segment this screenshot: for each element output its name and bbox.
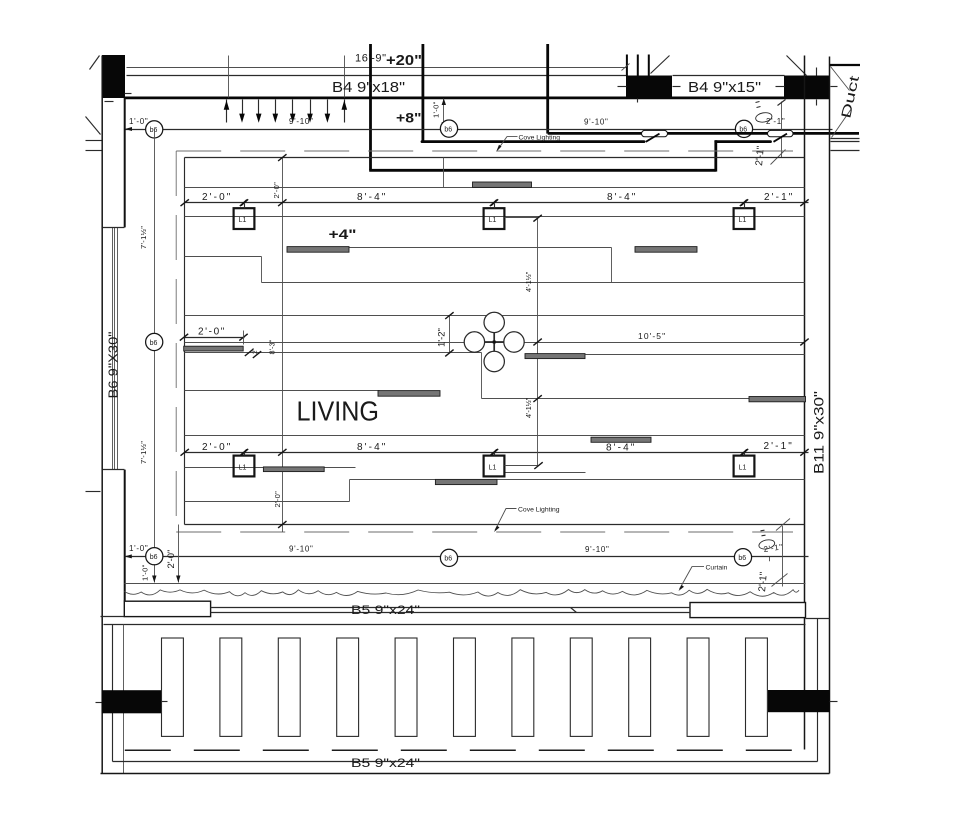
cove upper heavy segment C <box>793 132 860 135</box>
bar 9 <box>435 479 497 484</box>
grid stem above arrow 1 <box>228 56 230 98</box>
svg-text:2'-1": 2'-1" <box>764 192 794 203</box>
svg-text:LIVING: LIVING <box>297 396 380 427</box>
svg-text:B4 9"x18": B4 9"x18" <box>332 80 405 96</box>
flower circle left <box>464 332 484 352</box>
svg-text:+20": +20" <box>386 52 422 69</box>
dim stem x783 bottom <box>782 526 784 587</box>
L1 box top-mid <box>484 200 505 229</box>
tick above right block <box>816 68 818 76</box>
pergola dash-dot line <box>125 749 805 751</box>
svg-text:B4 9"x15": B4 9"x15" <box>688 80 761 96</box>
svg-text:10'-5": 10'-5" <box>638 331 666 341</box>
plank line y390 <box>185 390 380 392</box>
left wall outer line <box>101 56 103 774</box>
duct lower diagonal <box>832 109 852 138</box>
svg-text:9'-10": 9'-10" <box>584 118 609 127</box>
plank line y435 <box>185 435 805 437</box>
L1 box bot-right <box>734 450 755 477</box>
pergola inner vertical left A <box>112 625 114 762</box>
arrow down 7 <box>325 100 331 123</box>
flower step joint x481 <box>481 353 483 399</box>
tick right of column <box>125 93 132 95</box>
curtain wavy line <box>125 589 800 596</box>
arrow down 3 <box>256 100 262 123</box>
svg-text:8'-4": 8'-4" <box>357 442 387 453</box>
svg-text:1'-2": 1'-2" <box>437 328 448 347</box>
arrow down 5 <box>290 100 296 123</box>
svg-text:16'-9": 16'-9" <box>355 53 387 65</box>
L1 box bot-left <box>234 450 255 477</box>
cove lighting label bottom <box>494 506 560 532</box>
bar 5 <box>525 354 585 359</box>
slash on y342 at wall <box>800 339 808 346</box>
plank line y216 <box>185 216 805 218</box>
dim 2'-0" mid-left <box>180 327 248 345</box>
slash bottom-right <box>772 574 788 587</box>
heavy riser at x548 <box>546 44 549 134</box>
plank line y398 <box>482 398 805 400</box>
dim 1'-2" vertical <box>437 312 454 356</box>
plank line y352 <box>185 352 482 354</box>
svg-text:8'-4": 8'-4" <box>357 192 387 203</box>
cove lighting label top <box>496 134 560 152</box>
bubble bottom 2 <box>440 549 457 566</box>
svg-text:7'-1½": 7'-1½" <box>139 226 148 249</box>
L1 box bot-mid <box>484 450 505 477</box>
beam stub black left <box>102 690 161 713</box>
svg-text:4'-1½": 4'-1½" <box>524 397 533 418</box>
column diagonal slash <box>90 56 100 70</box>
plank line y354 right <box>586 354 805 356</box>
B5 double lines <box>211 607 691 609</box>
left wall inner upper <box>124 98 126 228</box>
plank line y342 <box>185 342 805 344</box>
beam B4 black block right <box>784 76 830 99</box>
svg-text:+4": +4" <box>329 226 357 242</box>
plank joint x443 <box>443 158 445 188</box>
arrow up 1 <box>224 100 230 123</box>
dashed boundary rect <box>176 150 793 152</box>
bar 7 <box>378 391 440 397</box>
bar 4 <box>184 346 244 351</box>
tick below right block <box>816 100 818 106</box>
wall ticks left side <box>86 140 102 142</box>
beam bottom heavy line <box>125 97 831 100</box>
B5 line jog <box>571 608 577 613</box>
flower circle right <box>504 332 524 352</box>
plank line y187 <box>185 187 805 189</box>
svg-text:B11 9"x30": B11 9"x30" <box>811 391 827 474</box>
bar 2 <box>287 247 349 253</box>
dim line row1 <box>185 202 809 204</box>
ticks at beam label band <box>618 86 627 88</box>
flower circle top <box>484 312 504 332</box>
tick below left block <box>637 99 639 103</box>
top grid line upper <box>127 67 627 69</box>
louver slats <box>162 638 768 736</box>
window cap top <box>103 227 125 229</box>
L1 box top-right <box>734 200 755 229</box>
interior boundary bottom <box>185 524 805 526</box>
svg-text:2'-0": 2'-0" <box>272 182 281 199</box>
tick below dim line <box>769 557 771 562</box>
slash top of x781 <box>778 100 786 106</box>
slash on dashed line right <box>776 519 790 531</box>
B5 left white rect <box>124 601 210 616</box>
connector box to dim x537 bottom <box>505 465 538 467</box>
bubble top 3 <box>735 120 752 137</box>
bar 3 <box>635 247 697 253</box>
dim vertical 4'-1.5 x537 <box>537 218 539 466</box>
arrow up 8 <box>342 100 348 123</box>
heavy riser at x370 <box>369 44 372 170</box>
bubble bottom 3 <box>734 549 751 566</box>
dim stem x443.8 <box>442 99 446 129</box>
bubble top 2 <box>440 120 457 137</box>
svg-text:1'-0": 1'-0" <box>129 544 148 553</box>
tick below column <box>105 101 114 103</box>
plank line y501 <box>185 501 350 503</box>
bubble mid-left <box>146 333 163 350</box>
svg-text:+8": +8" <box>396 110 422 126</box>
svg-text:4'-1½": 4'-1½" <box>524 271 533 292</box>
arrow down 2 <box>239 100 245 123</box>
L1 box top-left <box>234 200 255 229</box>
dim stem x781 <box>781 102 783 158</box>
top grid line lower <box>127 75 627 77</box>
pergola inner vertical right A <box>817 619 819 762</box>
B5 right white rect <box>690 603 806 618</box>
dim line y129 <box>125 129 833 131</box>
svg-text:B5 9"x24": B5 9"x24" <box>351 758 420 770</box>
beam B4 label band top edge <box>673 75 785 77</box>
pergola bottom line inner <box>113 761 818 763</box>
svg-text:B6 9"X30": B6 9"X30" <box>106 331 121 398</box>
right wall inner line <box>804 56 806 750</box>
bubble bottom 1 <box>146 548 163 565</box>
arrow down 4 <box>273 100 279 123</box>
svg-text:8'-4": 8'-4" <box>607 192 637 203</box>
svg-text:Cove Lighting: Cove Lighting <box>519 134 561 141</box>
bar 10 <box>591 437 651 442</box>
bar 8 <box>263 467 324 472</box>
left dim vertical x154 <box>154 130 156 583</box>
svg-text:Curtain: Curtain <box>706 565 728 572</box>
rotated 2'-0" x282 bottom <box>273 449 286 532</box>
curtain top line <box>125 583 806 585</box>
column top-left (black) <box>102 55 125 98</box>
B5 band left joint line <box>101 616 125 618</box>
heavy soffit step riser x716 <box>714 140 717 171</box>
svg-text:2'-0": 2'-0" <box>273 491 282 508</box>
cove upper heavy segment B <box>667 132 768 135</box>
interior boundary top <box>185 157 805 159</box>
slash bottom of x781 <box>771 150 786 165</box>
dim 2" + 8'-3" rotated <box>245 339 277 358</box>
pergola inner vertical left B <box>123 625 125 774</box>
duct leader diagonal <box>831 67 850 91</box>
beam B4 black block left <box>626 76 672 99</box>
svg-text:2'-1": 2'-1" <box>766 117 785 126</box>
diagonal above right block <box>787 56 807 76</box>
svg-text:Cove Lighting: Cove Lighting <box>518 506 560 513</box>
window mullion lines <box>112 228 114 470</box>
plank line y282 <box>262 282 805 284</box>
plank line y479 <box>350 479 805 481</box>
svg-text:8'-4": 8'-4" <box>606 443 636 454</box>
ditto dashes <box>756 102 760 103</box>
beam stub black right <box>768 690 830 712</box>
svg-text:9'-10": 9'-10" <box>289 117 314 126</box>
ditto marks bottom-right <box>761 529 765 532</box>
flower circle bottom <box>484 351 504 371</box>
right wall outer line <box>829 57 831 774</box>
bubble top 1 <box>146 121 163 138</box>
heavy soffit step horizontal y170 <box>369 169 716 172</box>
arrow down 6 <box>307 100 313 123</box>
diagonal above left block <box>651 56 670 74</box>
plank line y467 <box>185 467 356 469</box>
cove lower heavy segment B <box>716 140 771 143</box>
rotated 2'-0" x282 top <box>272 154 286 452</box>
stub columns above left block <box>626 55 628 76</box>
cove lower heavy segment A <box>422 140 644 143</box>
svg-text:2'-0": 2'-0" <box>202 192 232 203</box>
plank line y315 <box>185 315 805 317</box>
step joint x611 <box>611 248 613 283</box>
plank line y256 <box>185 256 262 258</box>
left arrowhead <box>125 127 132 131</box>
ellipse balloon bottom-right <box>758 538 775 550</box>
rotated 2'-0" x170 <box>166 525 181 583</box>
dim line row2 <box>185 452 809 454</box>
connector box to dim x537 top <box>505 217 538 219</box>
slash left of left block <box>622 64 630 71</box>
svg-text:B5 9"x24": B5 9"x24" <box>351 605 420 617</box>
heavy riser at x423 <box>421 44 424 142</box>
pergola bottom line outer <box>101 773 830 775</box>
cove upper heavy segment A <box>548 132 642 135</box>
svg-text:2'-1": 2'-1" <box>764 441 794 452</box>
svg-text:9'-10": 9'-10" <box>289 545 314 554</box>
dim line y556 <box>125 556 809 558</box>
jog capsule 2 <box>768 130 794 141</box>
svg-text:2'-0": 2'-0" <box>198 327 226 338</box>
svg-text:2'-0": 2'-0" <box>202 442 232 453</box>
svg-text:9'-10": 9'-10" <box>585 545 610 554</box>
left wall inner lower <box>124 470 126 602</box>
svg-text:8'-3": 8'-3" <box>268 339 277 354</box>
jog capsule 1 <box>642 130 668 141</box>
step joint x349 <box>349 480 351 502</box>
plank line y472 <box>506 472 586 474</box>
plank line y247 <box>288 247 612 249</box>
interior boundary left <box>184 158 186 525</box>
svg-text:1'-0": 1'-0" <box>432 101 441 118</box>
step joint x261 <box>261 257 263 283</box>
svg-text:2'-1": 2'-1" <box>754 145 767 166</box>
pergola top line <box>104 624 806 626</box>
curtain label <box>679 565 728 592</box>
grid stem above arrow 8 <box>344 56 346 98</box>
svg-text:2'-0": 2'-0" <box>166 550 177 569</box>
flower cross <box>482 330 506 354</box>
duct stub lines right of wall <box>831 138 860 140</box>
svg-text:1'-0": 1'-0" <box>141 564 150 581</box>
right wall joint line <box>806 618 830 620</box>
ellipse balloon top-right <box>755 111 773 123</box>
svg-text:2'-1": 2'-1" <box>757 571 770 592</box>
svg-text:7'-1½": 7'-1½" <box>139 441 148 464</box>
bar 6 <box>749 397 806 402</box>
duct stub top heavy <box>830 64 860 66</box>
svg-text:1'-0": 1'-0" <box>129 117 148 126</box>
bar 1 <box>473 182 532 187</box>
window cap bottom <box>103 469 125 471</box>
